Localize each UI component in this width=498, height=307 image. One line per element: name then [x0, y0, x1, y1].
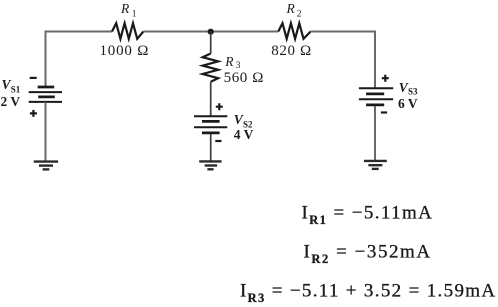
resistor R2 zigzag [278, 23, 310, 39]
svg-text:2 V: 2 V [1, 94, 21, 109]
ground (left) [34, 162, 58, 170]
svg-text:R: R [120, 1, 130, 16]
wire: left vertical lower [45, 102, 47, 161]
svg-text:1: 1 [132, 9, 137, 19]
battery VS1 plates [29, 87, 62, 102]
battery VS2 plates [194, 116, 227, 133]
plus sign VS1 [30, 110, 37, 117]
ground (right) [364, 161, 387, 169]
wire: right vertical upper [374, 31, 376, 89]
battery VS3 plates [359, 88, 393, 105]
wire: right vertical lower [374, 106, 376, 160]
svg-text:R: R [224, 54, 234, 69]
svg-text:IR3 = −5.11 + 3.52 = 1.59mA: IR3 = −5.11 + 3.52 = 1.59mA [240, 281, 496, 306]
svg-text:IR1 = −5.11mA: IR1 = −5.11mA [302, 203, 434, 228]
svg-text:1000 Ω: 1000 Ω [100, 43, 150, 59]
svg-text:4 V: 4 V [234, 127, 254, 142]
svg-text:S3: S3 [408, 87, 418, 97]
wire: middle vertical lower [210, 134, 212, 161]
resistor R1 zigzag [112, 23, 143, 39]
minus sign VS3 [381, 111, 387, 113]
svg-text:560 Ω: 560 Ω [224, 70, 264, 86]
svg-text:6 V: 6 V [398, 96, 418, 111]
plus sign VS3 [382, 75, 389, 82]
wire: middle vertical upper [210, 32, 212, 54]
minus sign VS2 [215, 140, 221, 142]
wire: left vertical upper [45, 31, 47, 88]
plus sign VS2 [216, 103, 223, 110]
ground (middle) [199, 161, 221, 169]
node junction dot [208, 29, 214, 35]
svg-text:IR2 = −352mA: IR2 = −352mA [304, 242, 432, 267]
svg-text:2: 2 [297, 9, 302, 19]
wire: top middle horizontal segment [143, 31, 278, 33]
svg-text:820 Ω: 820 Ω [271, 43, 311, 59]
wire: top-right horizontal segment [311, 31, 375, 33]
svg-text:R: R [286, 1, 296, 16]
resistor R3 zigzag (vertical) [203, 54, 219, 82]
wire: middle vertical between R3 and VS2 [210, 82, 212, 116]
wire: top-left horizontal segment [46, 31, 113, 33]
minus sign VS1 [30, 77, 37, 79]
